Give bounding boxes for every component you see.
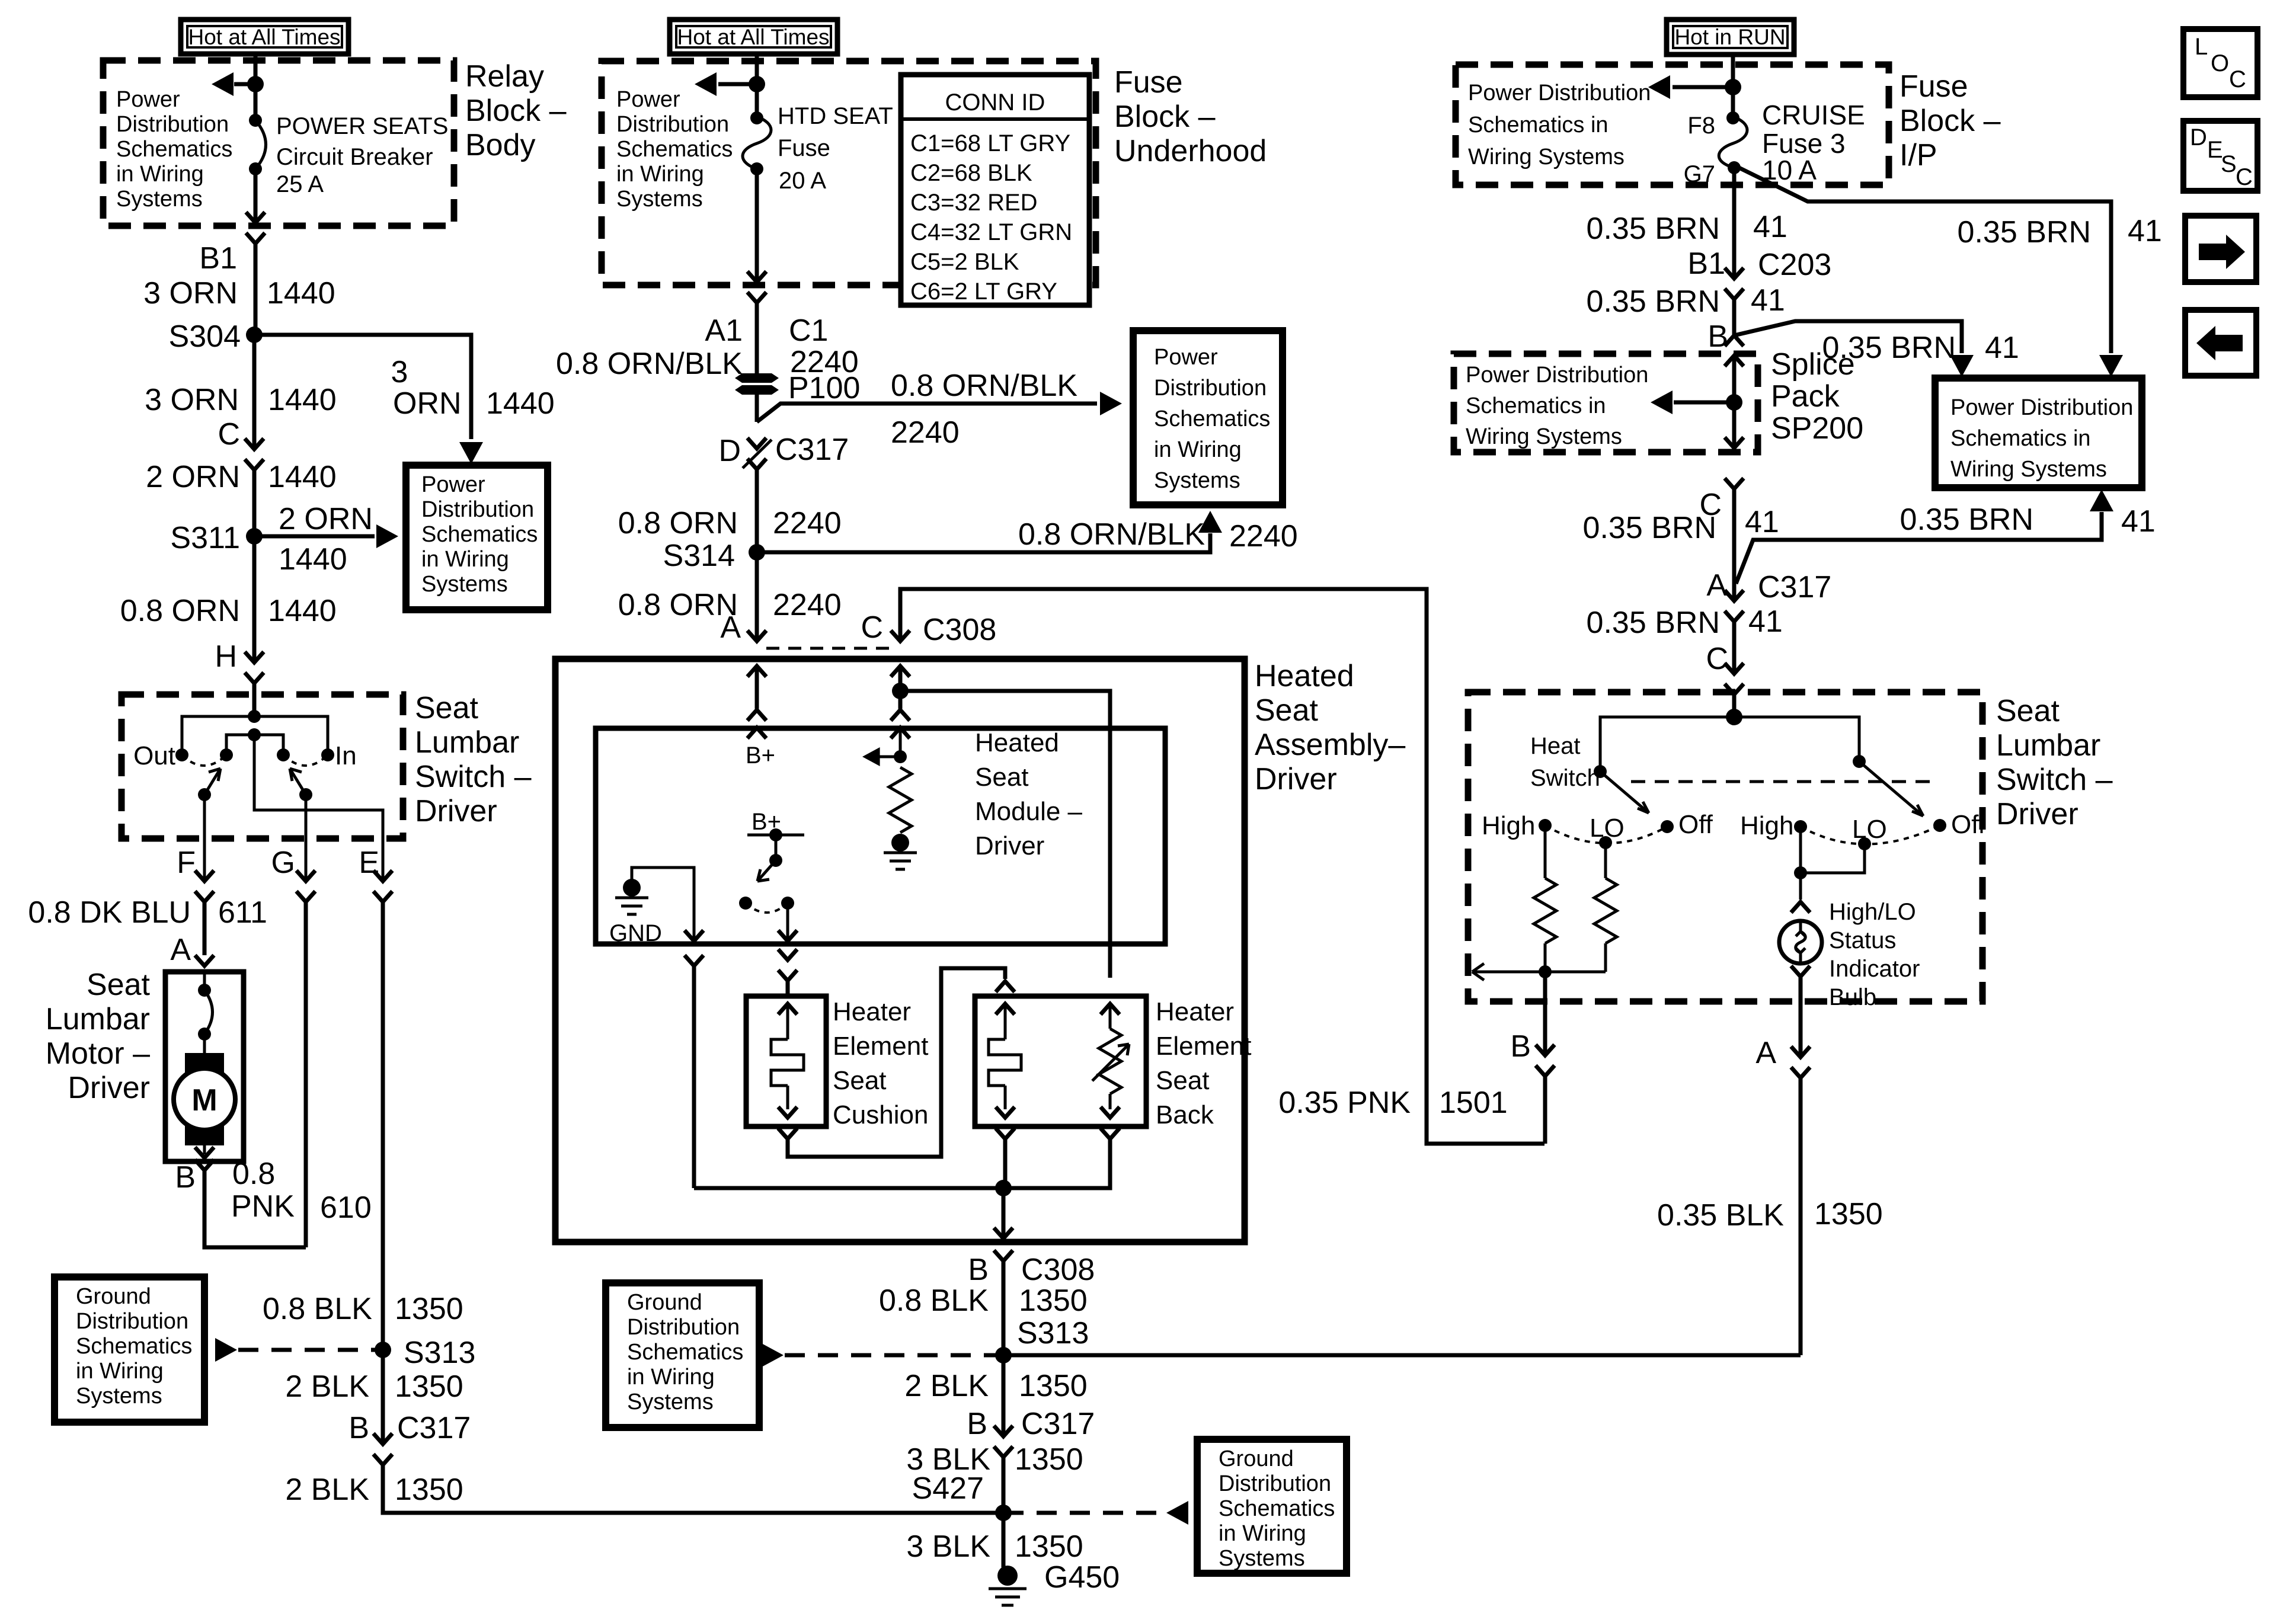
svg-text:High/LO: High/LO (1829, 899, 1916, 925)
svg-text:LO: LO (1852, 815, 1887, 844)
pin C entry into assembly (891, 666, 910, 738)
svg-text:P100: P100 (788, 371, 860, 405)
circuit breaker: POWER SEATS 25 A (249, 114, 266, 175)
connector B1 C203 (1687, 247, 1831, 299)
ground G450 (989, 1560, 1120, 1605)
heat switch arm (left half) (1594, 717, 1734, 813)
seat lumbar motor driver box (165, 972, 244, 1161)
ref text: Power Distribution Schematics in Wiring Systems (relay block) (116, 87, 232, 212)
wire: hot3 down to fuse (1731, 55, 1735, 118)
svg-text:Seat: Seat (87, 968, 151, 1002)
svg-text:B: B (968, 1253, 989, 1287)
module pin (right) to cushion heater (778, 949, 797, 996)
switch common bus bar (outer) (182, 710, 328, 755)
fuse: HTD SEAT 20 A (743, 111, 771, 175)
svg-text:25 A: 25 A (276, 171, 324, 197)
wire: G7 down, label 0.35 BRN 41 (1587, 165, 1787, 277)
svg-text:Seat: Seat (1996, 694, 2060, 728)
switch arm G (290, 769, 312, 801)
svg-text:C: C (1706, 642, 1728, 676)
wire: P100 down (755, 395, 759, 422)
svg-text:C: C (2229, 66, 2246, 92)
label 0.35 PNK 1501 (1278, 1086, 1507, 1120)
contact Out (133, 741, 188, 770)
svg-text:S314: S314 (663, 539, 735, 573)
svg-text:A: A (170, 933, 191, 967)
svg-text:in Wiring: in Wiring (116, 162, 204, 187)
svg-text:Assembly–: Assembly– (1255, 728, 1405, 762)
branch: S314 to ref box bottom arrow, label 0.8 ORN/BLK 2240 (757, 511, 1298, 553)
svg-text:Schematics: Schematics (616, 137, 733, 162)
svg-text:Schematics in: Schematics in (1468, 113, 1609, 137)
arrow: S311 to ref box, labels 2 ORN / 1440 (254, 502, 398, 577)
heater element seat back box (975, 996, 1146, 1126)
svg-text:Switch –: Switch – (1996, 763, 2113, 797)
svg-text:I/P: I/P (1900, 138, 1937, 172)
wire: to S427, label 3 BLK 1350 (906, 1442, 1083, 1513)
svg-text:Systems: Systems (627, 1390, 714, 1414)
svg-text:1350: 1350 (395, 1292, 463, 1326)
svg-text:Seat: Seat (1156, 1066, 1210, 1095)
svg-text:C: C (861, 610, 883, 645)
svg-text:Power: Power (616, 87, 680, 112)
svg-text:Underhood: Underhood (1114, 134, 1267, 168)
svg-text:Off: Off (1951, 810, 1986, 839)
svg-text:C4=32 LT GRN: C4=32 LT GRN (910, 219, 1072, 245)
svg-text:Distribution: Distribution (616, 112, 729, 137)
svg-text:Systems: Systems (76, 1384, 162, 1409)
svg-text:G7: G7 (1684, 161, 1715, 187)
svg-text:0.35 BRN: 0.35 BRN (1583, 511, 1716, 545)
node: collector junction (995, 1180, 1012, 1196)
ground ref box (bottom left) (55, 1277, 204, 1422)
splice S427 (912, 1471, 1012, 1521)
svg-text:S304: S304 (169, 319, 241, 354)
header: Fuse Block - Underhood (1114, 65, 1267, 168)
svg-text:D: D (2190, 124, 2207, 151)
svg-text:B1: B1 (1687, 247, 1725, 281)
label: Relay Block - Body (465, 59, 567, 162)
svg-text:C308: C308 (923, 613, 996, 647)
heater element symbol (seat back left) (989, 1004, 1021, 1118)
svg-text:C: C (218, 417, 240, 452)
connector B C317 (middle) (967, 1407, 1095, 1457)
ref box: Power Distribution Schematics in Wiring Systems (top right solid) (1935, 378, 2142, 488)
wire: collector down through box edge (994, 1188, 1013, 1238)
svg-text:Schematics: Schematics (421, 522, 538, 547)
svg-text:0.35 BRN: 0.35 BRN (1958, 215, 2091, 249)
dashed link A-C of C308 (766, 647, 891, 650)
arrow: to Power Distribution Schematics (I/P dashed box) (1648, 75, 1733, 99)
svg-text:C6=2 LT GRY: C6=2 LT GRY (910, 279, 1057, 305)
svg-text:0.8 ORN: 0.8 ORN (120, 594, 240, 628)
arrow + dashed link: S427 to ground box (right) (1003, 1501, 1188, 1525)
svg-text:Driver: Driver (415, 794, 497, 828)
ref text: Power Distribution Schematics in Wiring Systems (I/P) (1468, 81, 1651, 169)
svg-text:Hot at All Times: Hot at All Times (188, 25, 340, 49)
svg-text:Block –: Block – (1900, 104, 2001, 138)
svg-text:3 ORN: 3 ORN (143, 276, 238, 311)
pin F (177, 846, 214, 902)
heater element symbol (cushion) (771, 1004, 804, 1118)
svg-text:Schematics in: Schematics in (1466, 393, 1606, 418)
wire: cushion bottom loop to seat back left pin (778, 968, 1015, 1157)
ref box: Power Distribution Schematics in Wiring Systems (middle solid) (1133, 331, 1283, 505)
svg-text:Systems: Systems (116, 187, 203, 212)
svg-text:in Wiring: in Wiring (1219, 1521, 1306, 1546)
svg-text:Relay: Relay (465, 59, 544, 94)
resistor common bar with left arrow (1472, 943, 1606, 980)
label: CRUISE Fuse 3 10 A (1762, 100, 1865, 185)
svg-text:Off: Off (1678, 810, 1713, 839)
svg-text:Status: Status (1829, 927, 1896, 953)
svg-text:41: 41 (1748, 604, 1783, 639)
splice pack dashed box (1454, 354, 1758, 452)
svg-text:C1: C1 (789, 313, 828, 348)
header: Seat Lumbar Switch - Driver (right) (1996, 694, 2113, 831)
connector C (in-line) (218, 417, 264, 470)
power feed box: Hot at All Times (left) (181, 20, 348, 54)
fuse block I/P dashed box (1456, 65, 1889, 185)
svg-text:3 BLK: 3 BLK (906, 1529, 990, 1564)
svg-text:Schematics: Schematics (1154, 406, 1270, 431)
svg-text:Schematics: Schematics (627, 1340, 743, 1365)
svg-text:Schematics: Schematics (1219, 1496, 1335, 1521)
svg-text:B+: B+ (746, 742, 775, 769)
svg-text:Splice: Splice (1771, 347, 1855, 382)
node: junction to power distribution arrow (right) (1725, 79, 1741, 95)
svg-text:Systems: Systems (421, 572, 508, 597)
svg-text:Back: Back (1156, 1100, 1214, 1129)
svg-text:2 BLK: 2 BLK (904, 1369, 989, 1403)
svg-text:GND: GND (609, 920, 662, 946)
svg-text:Lumbar: Lumbar (46, 1002, 150, 1036)
svg-text:0.35 BRN: 0.35 BRN (1587, 284, 1720, 319)
svg-text:Power: Power (421, 472, 485, 497)
svg-text:Out: Out (133, 741, 175, 770)
label: HTD SEAT Fuse 20 A (778, 103, 893, 194)
svg-text:B: B (175, 1160, 196, 1195)
wire: S311 to H, label 0.8 ORN 1440 (120, 536, 337, 662)
svg-text:Switch: Switch (1530, 765, 1600, 791)
svg-text:1350: 1350 (395, 1369, 463, 1404)
header: Fuse Block - I/P (1900, 69, 2001, 172)
svg-text:Distribution: Distribution (421, 497, 534, 522)
pin E (359, 846, 392, 902)
svg-text:S313: S313 (404, 1336, 475, 1370)
svg-text:B: B (967, 1407, 987, 1441)
svg-text:Cushion: Cushion (833, 1100, 928, 1129)
dashed arc In link (283, 755, 328, 766)
svg-text:HTD SEAT: HTD SEAT (778, 103, 893, 129)
svg-text:41: 41 (2128, 214, 2162, 248)
svg-text:CRUISE: CRUISE (1762, 100, 1865, 130)
svg-text:1440: 1440 (268, 594, 337, 628)
svg-text:1350: 1350 (395, 1473, 463, 1507)
svg-text:Lumbar: Lumbar (415, 725, 519, 760)
node: junction to power distribution arrow (middle) (749, 76, 765, 92)
connector C of C308 (861, 610, 996, 647)
svg-text:Distribution: Distribution (116, 112, 229, 137)
label 0.8 BLK 1350 (left) (263, 1292, 463, 1326)
svg-text:S427: S427 (912, 1471, 984, 1506)
dashed mechanical link (1631, 780, 1937, 783)
svg-text:C317: C317 (397, 1411, 471, 1445)
svg-text:0.8: 0.8 (232, 1157, 275, 1191)
svg-text:Motor –: Motor – (46, 1036, 150, 1071)
connector C (switch entry) (1706, 642, 1744, 694)
wire: C317 to S314, label 0.8 ORN 2240 (618, 469, 842, 552)
svg-text:A: A (1755, 1036, 1776, 1070)
wire: pin E down to S313 (381, 902, 385, 1355)
wire: S314 to pin A, label 0.8 ORN 2240 (618, 552, 842, 641)
wire: C317 to C, label 0.35 BRN 41 (1587, 604, 1783, 674)
corner box DESC (2183, 121, 2257, 191)
svg-text:B1: B1 (199, 241, 237, 276)
svg-text:Ground: Ground (1219, 1446, 1294, 1471)
pin A entry into assembly (747, 666, 766, 738)
svg-text:POWER SEATS: POWER SEATS (276, 113, 448, 139)
dashed arc module switch (746, 903, 788, 913)
wire: fuse to box edge with arrow (747, 165, 766, 282)
wire: to S427, label 2 BLK 1350 (285, 1465, 1003, 1513)
svg-text:O: O (2211, 50, 2229, 76)
contacts High LO Off (right half) (1740, 810, 1986, 850)
connector B C308 (968, 1250, 1095, 1287)
arrow + dashed link: ground box to S313 (215, 1338, 383, 1362)
bulb feed wires (1791, 827, 1865, 913)
svg-text:High: High (1740, 811, 1794, 840)
power feed box: Hot at All Times (middle) (670, 20, 837, 54)
svg-text:1501: 1501 (1439, 1086, 1508, 1120)
connector C (splice pack output) (1699, 478, 1744, 522)
svg-text:Heated: Heated (1255, 659, 1354, 693)
heater element seat cushion box (746, 996, 826, 1126)
fuse block underhood dashed box (602, 61, 1096, 285)
wire: S313 to B C317, label 2 BLK 1350 (285, 1350, 463, 1444)
svg-text:1350: 1350 (1019, 1369, 1088, 1403)
wire: motor B to switch pin G, label 0.8 PNK 610 (204, 902, 372, 1247)
wire: junction to seat back right pin (900, 691, 1110, 978)
svg-text:0.8 ORN: 0.8 ORN (618, 506, 738, 540)
svg-text:0.8 BLK: 0.8 BLK (879, 1283, 989, 1318)
connector D C317 (718, 433, 849, 469)
connector B1 (relay block output) (199, 233, 265, 276)
svg-text:Indicator: Indicator (1829, 956, 1920, 982)
svg-text:Element: Element (1156, 1032, 1251, 1061)
corner box LOC (2183, 29, 2257, 97)
svg-text:in Wiring: in Wiring (76, 1359, 164, 1384)
label: POWER SEATS Circuit Breaker 25 A (276, 113, 448, 197)
svg-text:2 ORN: 2 ORN (146, 460, 240, 494)
svg-text:G: G (271, 846, 295, 880)
svg-text:C1=68 LT GRY: C1=68 LT GRY (910, 130, 1070, 156)
High/LO status indicator bulb (1779, 921, 1822, 964)
svg-text:A1: A1 (705, 313, 743, 348)
label: Heat Switch (1530, 733, 1600, 791)
wire: C down, label 0.35 BRN 41 (1583, 489, 1779, 601)
svg-text:Heater: Heater (1156, 997, 1234, 1026)
svg-text:L: L (2195, 34, 2208, 60)
header: Seat Lumbar Motor - Driver (46, 968, 151, 1105)
label: High/LO Status Indicator Bulb (1829, 899, 1920, 1010)
seat lumbar switch driver dashed box (right) (1468, 692, 1982, 1001)
svg-text:Power Distribution: Power Distribution (1466, 363, 1648, 388)
node: junction to power distribution arrow (left) (247, 76, 264, 92)
svg-text:41: 41 (2121, 504, 2156, 539)
svg-text:ORN: ORN (393, 386, 462, 421)
svg-text:Power Distribution: Power Distribution (1468, 81, 1651, 105)
svg-text:C317: C317 (775, 433, 849, 467)
connector B (motor) (175, 1160, 214, 1195)
svg-text:in Wiring: in Wiring (1154, 437, 1242, 462)
svg-text:2 BLK: 2 BLK (285, 1369, 369, 1404)
svg-text:Body: Body (465, 128, 536, 162)
resistor High (left half) (1534, 825, 1556, 943)
svg-text:Wiring Systems: Wiring Systems (1950, 457, 2107, 482)
svg-text:B: B (1707, 319, 1728, 354)
svg-text:0.35 BRN: 0.35 BRN (1587, 212, 1720, 246)
svg-text:C308: C308 (1021, 1253, 1095, 1287)
svg-text:B: B (348, 1411, 369, 1445)
svg-text:1350: 1350 (1015, 1529, 1083, 1564)
svg-text:41: 41 (1751, 283, 1785, 318)
svg-text:611: 611 (218, 895, 267, 930)
svg-text:2240: 2240 (1229, 519, 1298, 553)
svg-text:1350: 1350 (1015, 1442, 1083, 1477)
svg-text:S313: S313 (1017, 1316, 1089, 1350)
svg-text:1440: 1440 (268, 460, 337, 494)
wire: F to motor, label 0.8 DK BLU 611 (28, 895, 267, 955)
module internal: resistor to ground (884, 767, 917, 869)
svg-text:Lumbar: Lumbar (1996, 728, 2100, 763)
switch common bus bar (inner) (226, 728, 283, 755)
header: Seat Lumbar Switch - Driver (left) (415, 691, 532, 828)
module pin (left) to collector (685, 955, 703, 1188)
wire: arm F pivot to pin F (203, 795, 206, 881)
svg-text:0.35 BRN: 0.35 BRN (1900, 502, 2033, 537)
svg-text:Block –: Block – (1114, 100, 1216, 134)
fuse: CRUISE Fuse 3 10 A (1684, 111, 1747, 187)
connector A (motor) (170, 933, 214, 967)
resistor LO (left half) (1594, 843, 1617, 943)
svg-text:Element: Element (833, 1032, 928, 1061)
svg-text:M: M (191, 1083, 217, 1118)
splice S313 (995, 1316, 1089, 1363)
module internal: GND leg (609, 868, 703, 946)
wire: S304 branch to power distribution ref box, label 3 ORN 1440 (254, 335, 555, 464)
wire: breaker to box edge with arrow (246, 169, 265, 223)
svg-text:In: In (335, 741, 357, 770)
motor internal breaker (198, 972, 213, 1055)
svg-text:C317: C317 (1021, 1407, 1095, 1441)
svg-text:in Wiring: in Wiring (616, 162, 704, 187)
svg-text:2 ORN: 2 ORN (279, 502, 373, 536)
svg-text:41: 41 (1985, 331, 2019, 365)
svg-text:C317: C317 (1758, 570, 1831, 604)
corner box right arrow (2185, 216, 2256, 282)
wire: C203 to B, label 0.35 BRN 41 (1587, 283, 1785, 335)
relay block body dashed box (103, 60, 454, 226)
svg-text:C: C (2236, 164, 2253, 190)
svg-text:Heater: Heater (833, 997, 911, 1026)
svg-text:0.8 ORN/BLK: 0.8 ORN/BLK (891, 369, 1077, 403)
variable resistor (seat back right) (1092, 1004, 1129, 1118)
svg-text:Power Distribution: Power Distribution (1950, 395, 2133, 420)
svg-text:Power: Power (1154, 345, 1218, 370)
module internal: B+ switch (739, 809, 804, 941)
svg-text:20 A: 20 A (779, 168, 826, 194)
label: Heated Seat Module - Driver (975, 728, 1083, 860)
svg-text:S: S (2221, 151, 2237, 177)
svg-text:Seat: Seat (1255, 693, 1319, 728)
svg-text:Driver: Driver (975, 831, 1044, 860)
svg-text:A: A (1706, 568, 1727, 603)
svg-text:1350: 1350 (1814, 1197, 1883, 1231)
svg-text:0.8 DK BLU: 0.8 DK BLU (28, 895, 191, 930)
svg-text:in Wiring: in Wiring (627, 1365, 715, 1390)
seat lumbar switch driver dashed box (left) (121, 694, 403, 838)
svg-text:1440: 1440 (267, 276, 335, 311)
connector A1 C1 (705, 292, 828, 348)
svg-text:Seat: Seat (833, 1066, 887, 1095)
heat switch arm (right half) (1734, 717, 1923, 816)
contact In (321, 741, 357, 770)
svg-text:SP200: SP200 (1771, 411, 1863, 446)
wire: H into switch box (252, 683, 257, 716)
wire: B C308 to S313, label 0.8 BLK 1350 (879, 1261, 1088, 1355)
svg-text:Fuse: Fuse (1900, 69, 1968, 104)
ref box: Power Distribution Schematics in Wiring Systems (solid, left) (406, 465, 548, 610)
ground ref box (bottom right) (1197, 1439, 1347, 1573)
svg-text:Distribution: Distribution (1154, 376, 1267, 401)
ground ref box (middle) (606, 1283, 759, 1427)
svg-text:41: 41 (1753, 210, 1787, 244)
svg-text:Wiring Systems: Wiring Systems (1468, 145, 1625, 169)
arrow + dashed link: ground box to S313 (middle) (762, 1343, 1003, 1367)
splice S311 (170, 521, 263, 555)
svg-text:3 ORN: 3 ORN (145, 383, 239, 417)
svg-text:C5=2 BLK: C5=2 BLK (910, 249, 1019, 275)
node: heat switch feed junction (1726, 709, 1742, 725)
svg-text:1440: 1440 (279, 542, 347, 577)
inner contacts (220, 748, 290, 761)
svg-text:0.8 BLK: 0.8 BLK (263, 1292, 372, 1326)
splice S314 (663, 539, 765, 573)
connector A of C308 (720, 610, 766, 645)
wire: arm G pivot to pin G (305, 795, 308, 881)
svg-text:S311: S311 (170, 521, 240, 555)
svg-text:PNK: PNK (231, 1189, 295, 1224)
svg-text:C2=68 BLK: C2=68 BLK (910, 160, 1032, 186)
wire: S313 to right chain (0.35 BLK return) (1003, 1353, 1801, 1358)
svg-text:Distribution: Distribution (1219, 1471, 1331, 1496)
svg-text:1440: 1440 (486, 386, 555, 421)
wire: C1 to P100, label 0.8 ORN/BLK 2240 (556, 303, 859, 381)
svg-text:2240: 2240 (773, 506, 842, 540)
svg-text:1440: 1440 (268, 383, 337, 417)
svg-text:B: B (1510, 1029, 1531, 1064)
svg-text:2 BLK: 2 BLK (285, 1473, 369, 1507)
branch: B to ref box arrow, label 0.35 BRN 41 (1707, 319, 2019, 377)
svg-text:Schematics: Schematics (76, 1334, 192, 1359)
splice pack internal node + left arrow (1651, 356, 1744, 448)
wire: S313 to B C317, label 2 BLK 1350 (904, 1355, 1087, 1436)
svg-text:41: 41 (1745, 505, 1779, 539)
svg-text:Circuit Breaker: Circuit Breaker (276, 144, 433, 170)
svg-text:in Wiring: in Wiring (421, 547, 509, 572)
svg-text:0.35 BLK: 0.35 BLK (1657, 1198, 1784, 1233)
